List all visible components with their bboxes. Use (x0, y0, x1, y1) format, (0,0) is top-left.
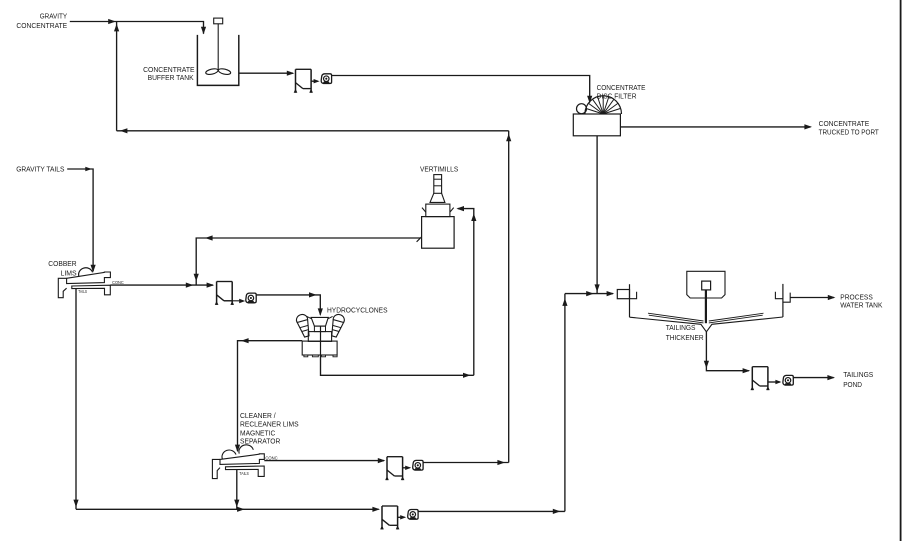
wire: cleaner conc to pump box P3 (264, 458, 385, 463)
svg-text:MAGNETIC: MAGNETIC (240, 431, 275, 438)
svg-text:CLEANER /: CLEANER / (240, 413, 276, 420)
wire: P4 box to pump (398, 515, 407, 519)
pump P4 (408, 510, 418, 520)
wire: P5 to tailings pond (793, 375, 835, 380)
svg-text:GRAVITY TAILS: GRAVITY TAILS (16, 165, 64, 174)
svg-text:POND: POND (843, 380, 862, 389)
wire: thickener feed line (565, 291, 614, 296)
wire: tank outlet to pump box P1 (239, 71, 295, 76)
svg-text:WATER TANK: WATER TANK (840, 301, 882, 310)
wire: cyclone overflow to cleaner LIMS (235, 338, 302, 452)
svg-text:TAILINGS: TAILINGS (666, 323, 696, 332)
tank: concentrate buffer tank (197, 18, 238, 85)
wire: vertimill discharge to cobber conc line (194, 235, 420, 285)
wire: cobber conc to pump box P2 (110, 283, 214, 288)
svg-text:THICKENER: THICKENER (666, 333, 704, 342)
wire: P2 box to pump (224, 299, 245, 303)
wire: P1 box to pump (311, 79, 320, 83)
wire: P4 to thickener riser (418, 509, 565, 514)
wire: P1 to disc filter (331, 76, 592, 104)
svg-text:DISC FILTER: DISC FILTER (597, 91, 637, 100)
equipment: cleaner/recleaner LIMS magnetic separator (212, 445, 264, 479)
wire: disc filter underflow down to thickener feed (595, 136, 600, 293)
svg-text:GRAVITY: GRAVITY (40, 12, 68, 21)
svg-text:BUFFER TANK: BUFFER TANK (148, 73, 194, 82)
wire: gravity concentrate feed to buffer tank (70, 19, 206, 35)
svg-text:RECLEANER LIMS: RECLEANER LIMS (240, 422, 299, 429)
equipment: cobber LIMS magnetic separator (58, 268, 110, 298)
pump P3 (413, 460, 423, 470)
wire: thickener overflow to process water tank (790, 295, 835, 300)
wire: P3 box to pump (403, 466, 412, 470)
svg-text:TAILS: TAILS (239, 471, 248, 476)
wire: cleaner tails down (234, 470, 239, 509)
label: CONCENTRATE BUFFER TANK (143, 65, 195, 82)
label: PROCESS WATER TANK (840, 292, 882, 309)
equipment: concentrate disc filter (573, 96, 621, 136)
label: CONCENTRATE DISC FILTER (597, 83, 646, 100)
wire: cyclone underflow riser to vertimill feed (456, 206, 476, 375)
wire: tails riser to thickener feed line (562, 294, 567, 512)
svg-text:CONC: CONC (265, 455, 278, 460)
pump P2 (246, 293, 256, 303)
pump box P5 (751, 367, 770, 390)
label: COBBER LIMS (48, 259, 76, 277)
svg-text:TAILINGS: TAILINGS (843, 370, 873, 379)
svg-text:HYDROCYCLONES: HYDROCYCLONES (327, 305, 388, 314)
svg-text:CONC: CONC (112, 280, 124, 285)
wire: P2 to hydrocyclones (256, 292, 323, 316)
pump box P3 (385, 457, 404, 480)
pump P1 (321, 74, 331, 84)
pump box P4 (380, 506, 399, 529)
label: CONCENTRATE TRUCKED TO PORT (819, 119, 880, 136)
wire: thickener underflow to pump box P5 (704, 332, 750, 374)
equipment: vertimill (417, 175, 455, 249)
svg-text:VERTIMILLS: VERTIMILLS (420, 165, 458, 174)
label: GRAVITY CONCENTRATE (16, 12, 67, 30)
pump P5 (783, 375, 793, 385)
wire: riser from cleaner conc pump (506, 131, 511, 463)
wire: disc filter to trucked-to-port (620, 124, 812, 129)
svg-text:TRUCKED TO PORT: TRUCKED TO PORT (819, 128, 880, 137)
wire: recycle riser (left) (114, 22, 119, 131)
label: TAILINGS THICKENER (666, 323, 704, 342)
wire: combined tails bottom line to P4 (76, 507, 380, 512)
pump box P1 (294, 69, 313, 92)
wire: gravity tails to cobber LIMS (67, 167, 96, 273)
wire: filtrate/concentrate return line (117, 128, 509, 133)
right page border (900, 0, 902, 541)
pump box P2 (215, 282, 234, 305)
svg-text:LIMS: LIMS (61, 269, 77, 278)
label: TAILINGS POND (843, 370, 873, 389)
svg-text:COBBER: COBBER (48, 259, 76, 268)
wire: cyclone underflow down and right (321, 355, 474, 378)
svg-text:CONCENTRATE: CONCENTRATE (16, 21, 67, 30)
wire: cobber tails down (73, 289, 78, 510)
equipment: hydrocyclone cluster (295, 313, 345, 357)
svg-text:TAILS: TAILS (78, 289, 87, 294)
equipment: tailings thickener (617, 271, 790, 332)
wire: P3 to recycle riser (423, 460, 509, 465)
label: CLEANER / RECLEANER LIMS MAGNETIC SEPARATOR (240, 413, 299, 446)
wire: P5 box to pump (768, 380, 782, 384)
